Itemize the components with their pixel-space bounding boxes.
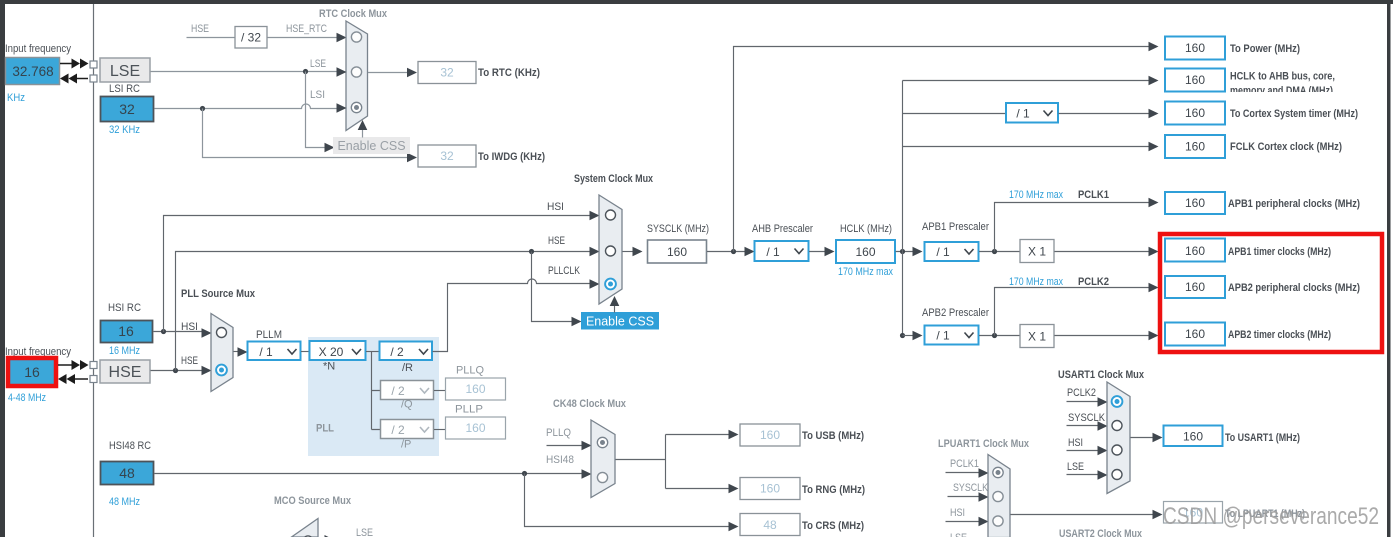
svg-text:USART2 Clock Mux: USART2 Clock Mux xyxy=(1059,528,1143,537)
svg-text:160: 160 xyxy=(1185,106,1205,120)
wire LSI to IWDG xyxy=(203,109,410,158)
svg-text:To IWDG (KHz): To IWDG (KHz) xyxy=(478,151,545,163)
svg-text:SYSCLK: SYSCLK xyxy=(1068,412,1106,424)
svg-text:Input frequency: Input frequency xyxy=(5,43,71,55)
svg-text:/ 1: / 1 xyxy=(936,245,950,259)
box APB2 peripheral 160 xyxy=(1165,276,1225,298)
svg-text:APB1 timer clocks (MHz): APB1 timer clocks (MHz) xyxy=(1228,246,1331,258)
svg-text:/ 32: / 32 xyxy=(241,31,261,45)
node APB2 junction xyxy=(900,333,905,338)
svg-text:To USART1 (MHz): To USART1 (MHz) xyxy=(1225,432,1300,444)
svg-text:16 MHz: 16 MHz xyxy=(109,345,140,357)
radio sys HSI xyxy=(606,210,616,220)
svg-text:170 MHz max: 170 MHz max xyxy=(838,266,893,278)
svg-text:LSE: LSE xyxy=(310,58,326,70)
wire HSI to pll mux xyxy=(154,331,205,333)
box PLLP 160 xyxy=(446,417,506,439)
wire HSI stub (lpuart1) xyxy=(946,521,981,523)
svg-text:HCLK (MHz): HCLK (MHz) xyxy=(840,223,892,235)
box To RNG 160 xyxy=(740,478,800,500)
svg-text:PLLCLK: PLLCLK xyxy=(548,265,581,277)
wire pll mux output xyxy=(234,351,241,353)
wire cortex dd to box xyxy=(1059,113,1149,115)
wire HSE to pll mux xyxy=(151,370,205,372)
svg-text:HSE: HSE xyxy=(191,23,209,35)
svg-text:PCLK1: PCLK1 xyxy=(950,458,979,470)
svg-text:APB2 peripheral clocks (MHz): APB2 peripheral clocks (MHz) xyxy=(1228,282,1360,294)
svg-text:160: 160 xyxy=(1185,244,1205,258)
node HSI48 junction xyxy=(522,471,527,476)
svg-text:APB2 timer clocks (MHz): APB2 timer clocks (MHz) xyxy=(1228,329,1331,341)
svg-text:160: 160 xyxy=(1185,140,1205,154)
node PCLK2 junction xyxy=(992,333,997,338)
svg-text:/P: /P xyxy=(401,439,411,451)
wire LSE stub (usart1) xyxy=(1067,474,1100,476)
box FCLK 160 xyxy=(1165,135,1225,158)
svg-text:160: 160 xyxy=(1185,327,1205,341)
multiplier X1 (apb1) xyxy=(1020,240,1054,263)
wire LPUART1 output xyxy=(1011,514,1155,516)
wire LSI to rtc mux with hop xyxy=(155,104,339,109)
mux MCO partial xyxy=(292,519,319,537)
svg-text:HSE: HSE xyxy=(181,355,198,367)
pin handle LSE bottom xyxy=(90,75,97,82)
svg-text:/Q: /Q xyxy=(401,399,413,411)
dropdown PLLP /2 disabled xyxy=(381,420,434,439)
svg-text:LSE: LSE xyxy=(950,532,967,537)
dropdown APB1 /1 xyxy=(925,242,979,261)
svg-text:APB2 Prescaler: APB2 Prescaler xyxy=(922,307,989,319)
node HCLK junction xyxy=(900,249,905,254)
svg-text:X 1: X 1 xyxy=(1028,245,1046,259)
pin handle HSE top xyxy=(90,362,97,369)
svg-text:SYSCLK: SYSCLK xyxy=(953,482,989,494)
radio sys HSE xyxy=(606,246,616,256)
box APB1 peripheral 160 xyxy=(1165,192,1225,214)
node LSE junction xyxy=(303,69,308,74)
svg-text:/ 1: / 1 xyxy=(1016,107,1030,121)
svg-text:160: 160 xyxy=(1185,73,1205,87)
svg-text:*N: *N xyxy=(323,361,335,373)
svg-text:To RNG (MHz): To RNG (MHz) xyxy=(802,484,865,496)
wire PLLP to box xyxy=(434,429,446,431)
dropdown PLLR /2 xyxy=(380,342,433,361)
wire PLLR to system mux (PLLCLK) xyxy=(433,279,591,352)
svg-text:170 MHz max: 170 MHz max xyxy=(1009,276,1063,288)
svg-text:To USB (MHz): To USB (MHz) xyxy=(802,430,864,442)
svg-text:48 MHz: 48 MHz xyxy=(109,496,140,508)
wire USART1 output xyxy=(1131,437,1155,439)
wire SYSCLK to Power xyxy=(734,47,1149,252)
wire SYSCLK stub (lpuart1) xyxy=(948,496,981,498)
svg-text:HSE_RTC: HSE_RTC xyxy=(286,23,327,35)
wire N to R xyxy=(366,351,380,353)
svg-text:LSI RC: LSI RC xyxy=(109,83,140,95)
svg-text:X 1: X 1 xyxy=(1028,330,1046,344)
button Enable CSS (RTC, disabled) xyxy=(333,137,410,154)
wire HCLK trunk vertical xyxy=(902,81,904,336)
radio USART1 SYSCLK xyxy=(1112,421,1122,431)
box HCLK 160 xyxy=(836,240,895,263)
dropdown PLLQ /2 disabled xyxy=(381,381,434,400)
svg-text:PLL Source Mux: PLL Source Mux xyxy=(181,288,256,300)
svg-text:LSI: LSI xyxy=(310,89,325,101)
wire HCLK to FCLK xyxy=(903,146,1149,148)
svg-text:CSDN @perseverance52: CSDN @perseverance52 xyxy=(1163,503,1379,530)
box To LPUART1 160 xyxy=(1164,502,1223,524)
svg-text:To CRS (MHz): To CRS (MHz) xyxy=(802,520,864,532)
svg-text:32: 32 xyxy=(440,149,454,163)
svg-text:APB1 Prescaler: APB1 Prescaler xyxy=(922,221,989,233)
radio RTC LSI selected xyxy=(351,102,361,112)
svg-text:PLLM: PLLM xyxy=(256,329,282,341)
wire HCLK out xyxy=(896,251,915,253)
svg-text:32 KHz: 32 KHz xyxy=(109,124,140,136)
svg-text:160: 160 xyxy=(1183,430,1203,444)
frame right border xyxy=(1387,0,1391,537)
svg-text:PLLP: PLLP xyxy=(455,404,483,416)
svg-text:CK48 Clock Mux: CK48 Clock Mux xyxy=(553,398,627,410)
svg-text:32.768: 32.768 xyxy=(12,64,53,79)
chip boundary line xyxy=(93,4,95,537)
radio PLL HSI xyxy=(217,328,227,338)
svg-text:HCLK to AHB bus, core,: HCLK to AHB bus, core, xyxy=(1230,71,1335,83)
radio MCO partial xyxy=(303,536,312,537)
wire SYSCLK to AHB xyxy=(707,251,747,253)
mux System Clock xyxy=(599,195,622,304)
box APB1 timer 160 xyxy=(1165,239,1225,262)
multiplier X1 (apb2) xyxy=(1020,325,1054,348)
svg-text:32: 32 xyxy=(440,66,454,80)
node LSI junction xyxy=(200,106,205,111)
svg-text:170 MHz max: 170 MHz max xyxy=(1009,189,1063,201)
svg-text:HSI: HSI xyxy=(547,201,564,213)
svg-text:160: 160 xyxy=(465,421,485,435)
svg-text:16: 16 xyxy=(118,323,134,339)
radio sys PLLCLK selected xyxy=(605,279,616,290)
mux LPUART1 xyxy=(988,455,1010,537)
svg-text:KHz: KHz xyxy=(7,92,25,104)
svg-text:HSI48 RC: HSI48 RC xyxy=(109,440,151,452)
svg-text:/ 2: / 2 xyxy=(390,345,404,359)
mux CK48 xyxy=(591,420,615,498)
svg-text:160: 160 xyxy=(1185,280,1205,294)
svg-text:Enable CSS: Enable CSS xyxy=(586,315,654,329)
svg-text:160: 160 xyxy=(465,382,485,396)
wire APB2 dd out xyxy=(979,335,1021,337)
svg-text:PCLK1: PCLK1 xyxy=(1078,189,1109,201)
svg-text:MCO Source Mux: MCO Source Mux xyxy=(274,495,352,507)
box HSI48 RC 48 xyxy=(101,462,154,485)
radio CK48 HSI48 xyxy=(597,472,607,482)
box To IWDG xyxy=(418,145,476,167)
radio USART1 LSE xyxy=(1112,470,1122,480)
wire PCLK1 stub xyxy=(946,472,981,474)
box APB2 timer 160 xyxy=(1165,323,1225,346)
panel PLL dividers xyxy=(308,337,439,456)
svg-text:Enable CSS: Enable CSS xyxy=(337,139,405,153)
wire LSE out arrows xyxy=(74,78,88,80)
box HCLK AHB 160 xyxy=(1165,69,1225,92)
svg-text:HSE: HSE xyxy=(109,364,142,381)
wire HSE in arrows xyxy=(58,364,73,366)
dropdown PLLM /1 xyxy=(248,342,301,361)
box LSE xyxy=(100,58,150,82)
wire PCLK1 xyxy=(995,203,1149,252)
wire LSE to Enable CSS xyxy=(306,72,328,148)
svg-text:PCLK2: PCLK2 xyxy=(1078,276,1109,288)
wire HSI48 to ck48 mux xyxy=(155,473,584,475)
svg-text:System Clock Mux: System Clock Mux xyxy=(574,173,654,185)
box To CRS 48 xyxy=(740,514,800,536)
wire RTC mux output xyxy=(368,72,409,74)
wire HSE_RTC to mux xyxy=(268,37,338,39)
svg-text:HSI: HSI xyxy=(1068,437,1083,449)
box To Power 160 xyxy=(1165,37,1225,60)
svg-text:32: 32 xyxy=(119,101,135,117)
box PLLQ 160 xyxy=(446,378,506,400)
dropdown AHB /1 xyxy=(755,241,809,261)
wire HSE out arrows xyxy=(74,378,88,380)
wire N branch down xyxy=(372,352,382,430)
svg-text:PLLQ: PLLQ xyxy=(546,427,571,439)
svg-text:/R: /R xyxy=(402,362,413,374)
svg-text:HSI: HSI xyxy=(181,321,198,333)
wire SYSCLK stub (usart1) xyxy=(1067,425,1100,427)
svg-text:16: 16 xyxy=(24,364,40,380)
wire AHB to HCLK xyxy=(809,251,827,253)
wire PCLK2 xyxy=(995,288,1149,336)
radio USART1 PCLK2 selected xyxy=(1112,396,1123,407)
box To USB 160 xyxy=(740,424,800,446)
pin handle HSE bottom xyxy=(90,376,97,383)
node PCLK1 junction xyxy=(992,249,997,254)
svg-text:PLL: PLL xyxy=(316,423,334,435)
wire X1 to APB1 timer xyxy=(1055,251,1149,253)
wire HCLK to AHB bus box xyxy=(903,80,1149,82)
wire LSE in arrows xyxy=(60,63,72,65)
node HSE css junction xyxy=(529,249,534,254)
svg-text:HSI: HSI xyxy=(950,507,965,519)
svg-text:4-48 MHz: 4-48 MHz xyxy=(8,392,46,404)
svg-text:To RTC (KHz): To RTC (KHz) xyxy=(478,67,540,79)
highlight red rect timers xyxy=(1160,234,1382,352)
box To USART1 160 xyxy=(1164,426,1223,447)
wire PCLK2 stub xyxy=(1067,401,1100,403)
radio LPUART1 HSI xyxy=(993,516,1003,526)
svg-text:160: 160 xyxy=(667,245,687,259)
svg-text:To Cortex System timer (MHz): To Cortex System timer (MHz) xyxy=(1230,108,1358,120)
svg-text:48: 48 xyxy=(119,465,135,481)
svg-text:LSE: LSE xyxy=(1067,461,1084,473)
svg-text:48: 48 xyxy=(763,518,777,532)
box LSE input frequency 32.768 xyxy=(6,58,60,85)
wire HSE to Enable CSS button xyxy=(532,252,574,322)
svg-text:SYSCLK (MHz): SYSCLK (MHz) xyxy=(647,223,709,235)
svg-text:PCLK2: PCLK2 xyxy=(1067,387,1096,399)
dropdown APB2 /1 xyxy=(925,326,979,345)
dropdown PLLN X20 xyxy=(310,341,366,360)
wire HSE to /32 xyxy=(187,37,236,39)
wire HCLK to cortex timer xyxy=(903,113,1007,115)
radio RTC HSE_RTC xyxy=(351,32,361,42)
svg-text:LSE: LSE xyxy=(356,527,373,537)
pin handle LSE top xyxy=(90,61,97,68)
box Cortex timer 160 xyxy=(1165,102,1225,125)
box HSE xyxy=(100,360,150,383)
box HSI RC 16 xyxy=(101,321,153,343)
button Enable CSS (sys) xyxy=(581,312,659,330)
svg-text:/ 2: / 2 xyxy=(391,423,405,437)
wire PLLM to N xyxy=(301,351,310,353)
svg-text:HSE: HSE xyxy=(548,235,565,247)
svg-text:LSE: LSE xyxy=(110,63,140,80)
mux RTC xyxy=(346,21,368,131)
wire PLLQ stub to ck48 mux xyxy=(547,445,584,447)
svg-text:FCLK Cortex clock (MHz): FCLK Cortex clock (MHz) xyxy=(1230,141,1342,153)
svg-text:/ 2: / 2 xyxy=(391,384,405,398)
node SYSCLK junction xyxy=(731,249,736,254)
node HSE junction xyxy=(173,368,178,373)
wire HSE to system mux xyxy=(176,252,591,371)
svg-text:PLLQ: PLLQ xyxy=(456,365,484,377)
highlight red rect HSE input xyxy=(8,358,56,386)
svg-text:LPUART1 Clock Mux: LPUART1 Clock Mux xyxy=(938,438,1030,450)
svg-text:APB1 peripheral clocks (MHz): APB1 peripheral clocks (MHz) xyxy=(1228,198,1360,210)
box LSI RC 32 xyxy=(101,97,154,122)
svg-text:RTC Clock Mux: RTC Clock Mux xyxy=(319,8,388,20)
svg-text:160: 160 xyxy=(760,482,780,496)
svg-text:X 20: X 20 xyxy=(319,345,344,359)
wire X1 to APB2 timer xyxy=(1055,335,1149,337)
radio LPUART1 PCLK1 selected xyxy=(993,467,1003,477)
wire HSI to system mux xyxy=(164,216,591,333)
wire CK48 output split xyxy=(616,435,731,489)
svg-text:160: 160 xyxy=(1185,41,1205,55)
mux USART1 xyxy=(1107,382,1130,494)
wire Enable CSS arrow up xyxy=(362,128,364,138)
wire LSE to rtc mux xyxy=(151,71,339,73)
svg-text:160: 160 xyxy=(1185,196,1205,210)
svg-text:/ 1: / 1 xyxy=(259,345,273,359)
node HSI junction xyxy=(161,329,166,334)
svg-text:HSI48: HSI48 xyxy=(546,454,574,466)
radio RTC LSE xyxy=(351,67,361,77)
wire APB1 dd out xyxy=(979,251,1021,253)
wire mco arrow fragment xyxy=(325,535,334,537)
svg-text:To Power (MHz): To Power (MHz) xyxy=(1230,43,1300,55)
frame left border xyxy=(0,0,5,537)
radio PLL HSE selected xyxy=(216,365,227,376)
divider /32 xyxy=(235,27,267,49)
wire sys mux output xyxy=(623,251,635,253)
box To RTC xyxy=(418,62,476,84)
wire PLLQ to box xyxy=(434,390,446,392)
svg-text:160: 160 xyxy=(855,245,875,259)
wire HSI stub (usart1) xyxy=(1067,450,1100,452)
frame top border xyxy=(0,0,1393,4)
svg-text:AHB Prescaler: AHB Prescaler xyxy=(752,223,813,235)
dropdown Cortex /1 xyxy=(1006,103,1058,123)
box SYSCLK 160 xyxy=(648,240,707,263)
svg-text:/ 1: / 1 xyxy=(936,329,950,343)
wire to APB2 prescaler xyxy=(903,335,915,337)
svg-text:160: 160 xyxy=(760,428,780,442)
svg-text:USART1 Clock Mux: USART1 Clock Mux xyxy=(1058,369,1145,381)
radio LPUART1 SYSCLK xyxy=(993,491,1003,501)
mux PLL Source xyxy=(211,314,233,392)
svg-text:/ 1: / 1 xyxy=(766,245,780,259)
wire HSI48 to CRS xyxy=(525,474,731,527)
wire Enable CSS arrow up (sys) xyxy=(614,304,616,313)
radio CK48 PLLQ selected xyxy=(597,437,607,447)
svg-text:HSI RC: HSI RC xyxy=(108,302,141,314)
radio USART1 HSI xyxy=(1112,445,1122,455)
